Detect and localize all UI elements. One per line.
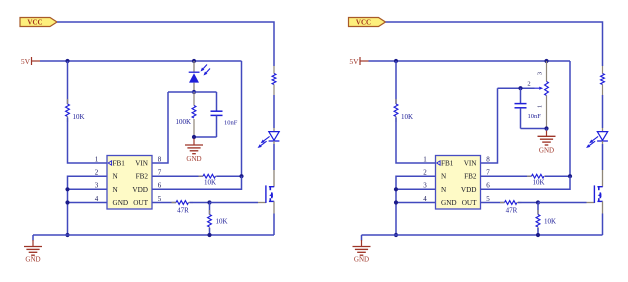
- svg-text:2: 2: [423, 169, 427, 177]
- op-amp IC U (8-pin controller): [436, 156, 481, 210]
- resistor R 47R (gate series): [481, 202, 505, 204]
- svg-text:VDD: VDD: [132, 186, 148, 194]
- LED D (output indicator): [273, 128, 275, 131]
- svg-text:N: N: [441, 186, 447, 194]
- svg-text:FB1: FB1: [441, 160, 454, 168]
- junction gate node: [207, 200, 211, 204]
- svg-text:10K: 10K: [401, 113, 413, 121]
- junction on 5V rail at pullup column: [394, 59, 398, 63]
- wire FET source to rail: [273, 214, 275, 236]
- junction pin4: [394, 200, 398, 204]
- svg-text:8: 8: [486, 155, 490, 163]
- svg-text:5V: 5V: [349, 57, 359, 66]
- svg-text:10nF: 10nF: [224, 120, 238, 127]
- svg-text:6: 6: [486, 182, 490, 190]
- wire RC block top rail: [168, 91, 217, 93]
- svg-text:4: 4: [423, 195, 427, 203]
- svg-text:5: 5: [486, 195, 490, 203]
- resistor R (branch, no label): [602, 66, 604, 74]
- svg-text:10K: 10K: [204, 179, 216, 187]
- junction pulldown at rail: [536, 233, 540, 237]
- wire bottom ground rail: [33, 234, 274, 236]
- junction on 5V rail at pullup column: [65, 59, 69, 63]
- wire pin2/3/4 ground chain: [396, 176, 436, 235]
- svg-text:8: 8: [158, 155, 162, 163]
- wire pot bottom mini rail: [521, 128, 547, 130]
- svg-text:100K: 100K: [175, 118, 191, 126]
- resistor R 47R (gate series): [152, 202, 176, 204]
- wire 5V rail: [40, 60, 242, 62]
- photodiode D (filled LED, arrows in): [193, 61, 195, 72]
- svg-text:1: 1: [537, 105, 544, 108]
- svg-text:3: 3: [95, 182, 99, 190]
- wire pin4 stub: [396, 202, 436, 204]
- resistor R 10K (FB2 pullup): [152, 175, 203, 177]
- svg-text:GND: GND: [441, 199, 457, 207]
- wire pin3 stub: [396, 188, 436, 190]
- wire bottom ground rail: [362, 234, 603, 236]
- svg-text:6: 6: [158, 182, 162, 190]
- transistor Q NMOS: [273, 170, 275, 187]
- svg-text:N: N: [441, 173, 447, 181]
- svg-text:N: N: [113, 173, 119, 181]
- ground GND bottom left: [32, 235, 34, 241]
- wire pin4 stub: [68, 202, 108, 204]
- op-amp IC U (8-pin controller): [107, 156, 152, 210]
- junction ground chain at bottom rail: [65, 233, 69, 237]
- svg-text:VIN: VIN: [464, 160, 478, 168]
- LED D (output indicator): [602, 128, 604, 131]
- ground GND under pot: [546, 129, 548, 131]
- svg-text:OUT: OUT: [462, 199, 477, 207]
- svg-text:10K: 10K: [544, 217, 556, 225]
- resistor R 10K pullup to FB1: [395, 61, 397, 104]
- svg-text:1: 1: [95, 155, 99, 163]
- svg-text:47R: 47R: [177, 206, 189, 214]
- svg-text:OUT: OUT: [133, 199, 148, 207]
- svg-text:4: 4: [95, 195, 99, 203]
- capacitor C 10nF: [520, 88, 522, 103]
- power flag VCC: [20, 18, 57, 27]
- wire node to pin8 VIN: [152, 92, 168, 163]
- resistor R 10K (gate pulldown): [209, 203, 211, 215]
- svg-text:3: 3: [423, 182, 427, 190]
- resistor R 10K (FB2 pullup): [481, 175, 532, 177]
- svg-text:10K: 10K: [532, 179, 544, 187]
- wire wiper node to pin8 VIN: [481, 88, 498, 163]
- svg-text:7: 7: [486, 169, 490, 177]
- junction RC bottom / gnd: [192, 135, 196, 139]
- input mark pin1: [108, 161, 111, 165]
- transistor Q NMOS: [602, 170, 604, 187]
- svg-text:GND: GND: [25, 255, 40, 263]
- ground GND under RC: [193, 139, 195, 145]
- wire FET source to rail: [602, 214, 604, 236]
- svg-text:2: 2: [95, 169, 99, 177]
- wire VCC rail to right branch: [57, 22, 274, 66]
- svg-text:FB2: FB2: [136, 173, 149, 181]
- wire VCC rail to right branch: [386, 22, 603, 66]
- svg-text:1: 1: [423, 155, 427, 163]
- svg-text:VCC: VCC: [27, 19, 42, 27]
- junction pin3: [65, 187, 69, 191]
- junction 5V rail at potentiometer: [544, 59, 548, 63]
- capacitor C 10nF: [216, 92, 218, 111]
- junction gate node: [536, 200, 540, 204]
- wire VDD to pullup node: [152, 176, 242, 189]
- ground GND bottom left: [361, 235, 363, 241]
- junction pulldown at rail: [207, 233, 211, 237]
- svg-text:VCC: VCC: [356, 19, 371, 27]
- potentiometer RV (pins 3,2,1): [546, 61, 548, 82]
- wire 5V rail corner down to pullup node: [569, 61, 571, 176]
- power flag VCC: [349, 18, 386, 27]
- wire pullup to pin1: [396, 118, 436, 164]
- svg-text:GND: GND: [113, 199, 129, 207]
- svg-text:GND: GND: [354, 255, 369, 263]
- svg-text:10nF: 10nF: [528, 113, 542, 120]
- wire wiper row: [498, 87, 535, 89]
- resistor R 100K: [193, 92, 195, 106]
- svg-text:5: 5: [158, 195, 162, 203]
- input mark pin1: [437, 161, 440, 165]
- svg-text:N: N: [113, 186, 119, 194]
- junction pot bottom / gnd: [544, 126, 548, 130]
- svg-text:VIN: VIN: [135, 160, 149, 168]
- junction photodiode / RC node: [192, 90, 196, 94]
- svg-text:GND: GND: [539, 146, 554, 154]
- wire pin3 stub: [68, 188, 108, 190]
- wire pin2/3/4 ground chain: [68, 176, 108, 235]
- svg-text:47R: 47R: [506, 206, 518, 214]
- svg-text:VDD: VDD: [461, 186, 477, 194]
- svg-text:7: 7: [158, 169, 162, 177]
- wire VDD to pullup node: [481, 176, 571, 189]
- wire pullup to pin1: [68, 118, 108, 164]
- junction ground chain at bottom rail: [394, 233, 398, 237]
- svg-text:3: 3: [537, 72, 544, 75]
- junction pin3: [394, 187, 398, 191]
- junction wiper / cap: [518, 86, 522, 90]
- wire gate node to FET gate: [538, 202, 587, 204]
- svg-text:10K: 10K: [73, 113, 85, 121]
- resistor R 10K (gate pulldown): [537, 203, 539, 215]
- wire gate node to FET gate: [210, 202, 259, 204]
- wire 5V rail corner down to pullup node: [241, 61, 243, 176]
- junction FB2/VDD pullup node: [568, 174, 572, 178]
- junction FB2/VDD pullup node: [239, 174, 243, 178]
- svg-text:GND: GND: [186, 155, 201, 163]
- junction pin4: [65, 200, 69, 204]
- svg-text:10K: 10K: [216, 217, 228, 225]
- wire RC bottom rail: [194, 136, 217, 138]
- svg-text:2: 2: [527, 81, 530, 88]
- svg-text:FB1: FB1: [113, 160, 126, 168]
- svg-text:FB2: FB2: [464, 173, 477, 181]
- resistor R 10K pullup to FB1: [67, 61, 69, 104]
- svg-text:5V: 5V: [21, 57, 31, 66]
- wire 5V rail: [369, 60, 571, 62]
- resistor R (branch, no label): [273, 66, 275, 74]
- junction 5V rail at photodiode branch: [192, 59, 196, 63]
